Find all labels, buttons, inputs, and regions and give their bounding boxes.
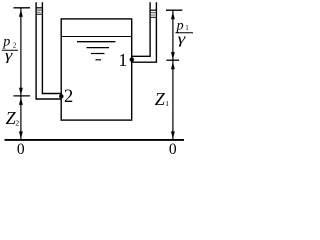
- svg-text:1: 1: [165, 99, 169, 108]
- svg-text:1: 1: [185, 24, 189, 32]
- svg-text:γ: γ: [178, 30, 187, 46]
- svg-text:2: 2: [13, 42, 17, 50]
- svg-text:Z: Z: [155, 89, 166, 109]
- svg-text:2: 2: [15, 118, 19, 127]
- svg-text:2: 2: [64, 87, 73, 107]
- svg-text:0: 0: [17, 141, 25, 156]
- svg-text:0: 0: [169, 141, 177, 156]
- svg-text:1: 1: [118, 50, 127, 70]
